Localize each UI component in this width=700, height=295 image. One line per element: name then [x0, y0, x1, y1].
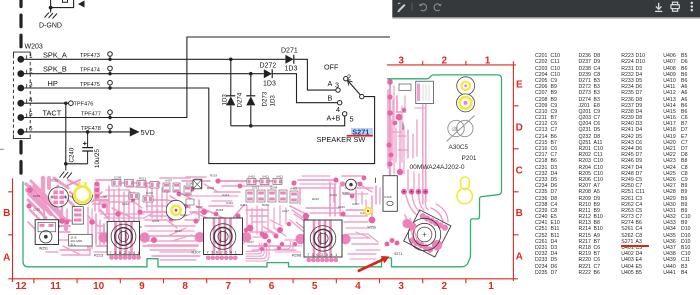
svg-text:SPK_A: SPK_A: [43, 50, 67, 59]
test point TPF476 on wire: [69, 101, 74, 106]
svg-text:2: 2: [29, 67, 33, 74]
connector footprint rect top lobe: [416, 81, 434, 103]
node junction C240/row6: [86, 130, 90, 134]
svg-text:D274: D274: [237, 92, 244, 107]
svg-text:U416: U416: [240, 203, 248, 207]
svg-text:5: 5: [312, 281, 318, 292]
right mid: [345, 187, 373, 189]
svg-text:10: 10: [93, 281, 105, 292]
svg-text:7: 7: [226, 281, 232, 292]
svg-text:6: 6: [29, 126, 33, 133]
ground below C240: [65, 164, 67, 171]
svg-text:D-GND: D-GND: [39, 23, 62, 30]
wire: dashed bus line bottom: [19, 142, 22, 175]
svg-text:TPF476: TPF476: [74, 102, 94, 108]
svg-text:R208: R208: [292, 254, 301, 258]
drill marks on pad row: [403, 191, 426, 193]
svg-text:R232: R232: [207, 186, 215, 190]
test point TPF473: [108, 52, 113, 57]
pin 5: [17, 114, 24, 121]
red arrow pointer: [356, 253, 391, 275]
node junction gnd: [64, 162, 68, 166]
ground symbol D-GND: [45, 13, 58, 19]
svg-text:D271: D271: [281, 48, 298, 55]
svg-text:5VD: 5VD: [141, 128, 155, 137]
svg-text:HP: HP: [48, 79, 58, 88]
svg-text:1: 1: [488, 281, 494, 292]
svg-text:C252: C252: [33, 208, 41, 212]
svg-text:R220: R220: [262, 203, 269, 207]
info box 11B/2IA-GND/3I L: [69, 234, 92, 246]
svg-text:C240: C240: [69, 147, 76, 162]
pin 1: [17, 56, 24, 63]
svg-text:12: 12: [15, 281, 27, 292]
wire: D-GND box: [51, 0, 74, 8]
svg-text:B: B: [328, 94, 333, 103]
mid network: [196, 206, 216, 214]
svg-text:R213: R213: [139, 177, 147, 181]
svg-text:U427: U427: [165, 179, 173, 183]
svg-text:d8: d8: [452, 127, 459, 133]
svg-text:2: 2: [347, 73, 351, 82]
big yellow ring: [72, 195, 92, 205]
yellow ring small 2: [365, 208, 372, 215]
test point TPF478: [108, 124, 113, 129]
svg-text:C251: C251: [33, 194, 41, 198]
svg-text:A: A: [3, 253, 10, 264]
wire: dashed bus line top: [19, 0, 22, 52]
pen icon: [397, 3, 405, 12]
capacitor C240: [87, 132, 89, 147]
joystick R215: [98, 221, 149, 259]
component U403 block: [72, 207, 83, 225]
left blob of encoder: [402, 219, 416, 231]
svg-text:W201: W201: [401, 122, 405, 130]
kebab menu icon: [691, 2, 694, 12]
diode D274 vertical: [230, 59, 232, 126]
svg-text:TPF478: TPF478: [81, 126, 101, 132]
wire row1 SPK_A: [21, 58, 286, 60]
svg-text:B: B: [3, 208, 10, 219]
red underline for S271 A3 row: [621, 245, 650, 247]
component location table: [535, 53, 547, 276]
target circle 2: [457, 94, 475, 112]
pin number ticks: [26, 55, 28, 132]
svg-text:3: 3: [398, 281, 404, 292]
svg-text:U414: U414: [226, 201, 233, 205]
wire D272 to B contact: [272, 74, 337, 103]
svg-text:D273: D273: [262, 91, 269, 106]
switch S271 contacts: [344, 77, 348, 81]
pin 3: [17, 85, 24, 92]
svg-text:Q204: Q204: [270, 186, 278, 190]
pin 4: [17, 100, 24, 107]
svg-text:B: B: [516, 208, 523, 219]
SMD footprint cluster left-mid: [112, 179, 202, 205]
test point TPF477: [108, 110, 113, 115]
PCB board texts: [39, 144, 477, 258]
svg-text:C215: C215: [338, 205, 345, 209]
svg-text:U4A7: U4A7: [352, 202, 360, 206]
svg-text:1D3: 1D3: [263, 81, 276, 88]
mark inside box: [63, 0, 68, 2]
svg-text:3: 3: [29, 82, 33, 89]
test point labels: [74, 53, 101, 132]
svg-text:5: 5: [350, 115, 354, 124]
svg-text:3: 3: [335, 81, 339, 90]
transistor Q251: [49, 187, 69, 207]
svg-text:U415: U415: [290, 187, 298, 191]
svg-text:U410: U410: [248, 175, 256, 179]
svg-text:4: 4: [336, 105, 340, 114]
svg-text:A+B: A+B: [327, 114, 341, 123]
svg-text:U4A6: U4A6: [384, 195, 392, 199]
density pass 3: [28, 90, 406, 261]
svg-text:8: 8: [182, 281, 188, 292]
svg-text:C213: C213: [252, 186, 260, 190]
svg-text:1: 1: [485, 56, 491, 67]
svg-text:R222: R222: [312, 197, 319, 201]
left diagonal bands: [26, 184, 46, 204]
svg-text:7362541: 7362541: [307, 252, 340, 257]
tilted encoder component: [404, 210, 453, 258]
extra density traces: [30, 120, 448, 260]
svg-text:3: 3: [398, 56, 404, 67]
yellow ring small 1: [166, 200, 186, 220]
svg-text:4: 4: [29, 97, 33, 104]
svg-text:W251: W251: [39, 247, 48, 251]
wire row3 HP to switch common: [21, 88, 375, 164]
wire diode rail to A+B contact: [231, 116, 345, 126]
svg-text:1D3: 1D3: [222, 94, 229, 106]
svg-text:D272: D272: [260, 62, 277, 69]
svg-text:7362541: 7362541: [110, 250, 143, 255]
connector W203 dashed outline: [13, 55, 30, 136]
left margin gray dash: [0, 149, 4, 150]
svg-text:D241: D241: [330, 193, 338, 197]
svg-text:11: 11: [50, 281, 61, 292]
svg-text:C217: C217: [282, 209, 289, 213]
svg-text:2: 2: [442, 281, 448, 292]
svg-text:H251: H251: [57, 220, 61, 228]
svg-text:U411: U411: [262, 175, 269, 179]
svg-text:7362541: 7362541: [207, 250, 240, 255]
svg-text:4: 4: [355, 281, 361, 292]
wire row5 TACT up and over top: [21, 37, 390, 118]
svg-text:TPF473: TPF473: [80, 53, 100, 59]
svg-text:S261: S261: [342, 192, 350, 196]
feeds into tilted comp: [406, 195, 417, 215]
pink pads scattered: [59, 79, 428, 246]
diode D273 vertical: [250, 74, 252, 126]
PCB layer placeholder: [0, 56, 523, 292]
svg-text:U412: U412: [276, 175, 284, 179]
svg-text:TACT: TACT: [43, 109, 62, 118]
svg-text:P201: P201: [462, 155, 477, 162]
wire row4 down to C240 gnd node: [65, 103, 67, 164]
connector W203 top bracket: [13, 52, 30, 56]
print icon: [671, 2, 679, 11]
svg-text:TPF477: TPF477: [81, 111, 101, 117]
encoder rings (unrotated): [408, 218, 440, 250]
download icon: [655, 3, 662, 12]
svg-text:R207: R207: [192, 251, 201, 255]
svg-text:2: 2: [442, 56, 448, 67]
net labels: [43, 50, 67, 117]
svg-text:U413: U413: [222, 193, 230, 197]
ground D-GND stem: [50, 0, 52, 13]
svg-text:SPEAKER SW: SPEAKER SW: [317, 135, 366, 144]
svg-text:R217: R217: [175, 229, 182, 233]
svg-text:E: E: [516, 80, 523, 91]
right lobe verticals: [389, 80, 391, 178]
test point TPF474: [108, 66, 113, 71]
svg-text:SPK_B: SPK_B: [43, 65, 67, 74]
svg-text:A: A: [328, 79, 333, 88]
svg-text:Q203: Q203: [152, 219, 160, 223]
small black rect HOS3: [399, 84, 411, 90]
svg-text:OFF: OFF: [324, 63, 339, 72]
target circle 1: [457, 77, 475, 95]
svg-text:5: 5: [29, 111, 33, 118]
node junction at D-GND: [49, 6, 53, 10]
svg-text:R218: R218: [216, 208, 224, 212]
svg-text:R212: R212: [122, 202, 129, 206]
toolbar: [392, 0, 700, 19]
diode D272: [264, 69, 272, 78]
svg-text:00MWA24AJ202-0: 00MWA24AJ202-0: [410, 164, 465, 171]
svg-text:1D3: 1D3: [285, 66, 298, 73]
wire cap bottom to gnd node: [66, 163, 88, 165]
node junction rail/D273: [249, 124, 253, 128]
crossed logo: [447, 116, 475, 142]
wire row2 SPK_B: [21, 73, 264, 75]
schematic text layer: [25, 23, 374, 169]
test point TPF475: [108, 80, 113, 85]
svg-text:C210: C210: [146, 191, 153, 195]
svg-text:TPF475: TPF475: [80, 82, 100, 88]
svg-text:TPF474: TPF474: [80, 68, 100, 74]
svg-text:R215: R215: [94, 254, 103, 258]
svg-text:A30C5: A30C5: [449, 144, 469, 151]
svg-text:A: A: [516, 252, 523, 263]
connector W203 bottom bracket: [13, 135, 30, 139]
svg-text:1D3: 1D3: [270, 95, 277, 107]
svg-text:D: D: [516, 123, 523, 134]
svg-text:6: 6: [269, 281, 275, 292]
svg-text:R251: R251: [51, 179, 59, 183]
svg-text:C209: C209: [114, 176, 122, 180]
svg-text:1: 1: [29, 53, 33, 60]
pin numbers: [29, 53, 33, 133]
redo icon: [434, 4, 442, 11]
relay footprint tall rect: [383, 176, 397, 212]
power flag partial top: [78, 1, 85, 8]
svg-text:3I L: 3I L: [71, 243, 76, 247]
svg-text:S271: S271: [394, 252, 402, 256]
node junction row2/D273: [249, 72, 253, 76]
power 5VD triangle: [130, 127, 140, 136]
wire row4 to TPF476: [21, 102, 69, 104]
wire D271 to A contact: [294, 59, 336, 90]
node junction row1/D274: [229, 58, 233, 62]
svg-text:C207: C207: [196, 205, 203, 209]
wire row6 to 5VD: [21, 131, 130, 133]
undo icon: [419, 4, 427, 11]
switch S262 box: [193, 180, 202, 189]
separator: [412, 3, 413, 10]
svg-text:C: C: [516, 166, 523, 177]
pin 2: [17, 70, 24, 77]
yellow keyhole: [457, 177, 472, 204]
svg-text:U425: U425: [100, 195, 107, 199]
SMD footprint cluster mid-right: [246, 179, 298, 204]
svg-text:10u/25: 10u/25: [94, 149, 101, 168]
svg-text:W203: W203: [25, 44, 43, 51]
S271 highlighted: [351, 128, 373, 135]
joystick R207: [195, 218, 252, 260]
pin 6: [17, 129, 24, 136]
svg-text:C216: C216: [180, 213, 188, 217]
joystick R208: [295, 220, 350, 262]
diode D271: [285, 55, 293, 64]
tiny ref labels scattered: [33, 86, 409, 228]
connector W251: [35, 220, 58, 245]
left cluster mass fills: [27, 186, 268, 244]
svg-text:9: 9: [139, 281, 145, 292]
switch arm: [348, 81, 360, 95]
svg-text:D206: D206: [186, 182, 194, 186]
svg-text:W256: W256: [368, 226, 377, 230]
svg-text:R219: R219: [210, 174, 218, 178]
center-left network: [103, 195, 131, 197]
switch S261: [340, 178, 376, 191]
S271 red underline: [347, 135, 373, 137]
schematic layer: [13, 0, 390, 179]
